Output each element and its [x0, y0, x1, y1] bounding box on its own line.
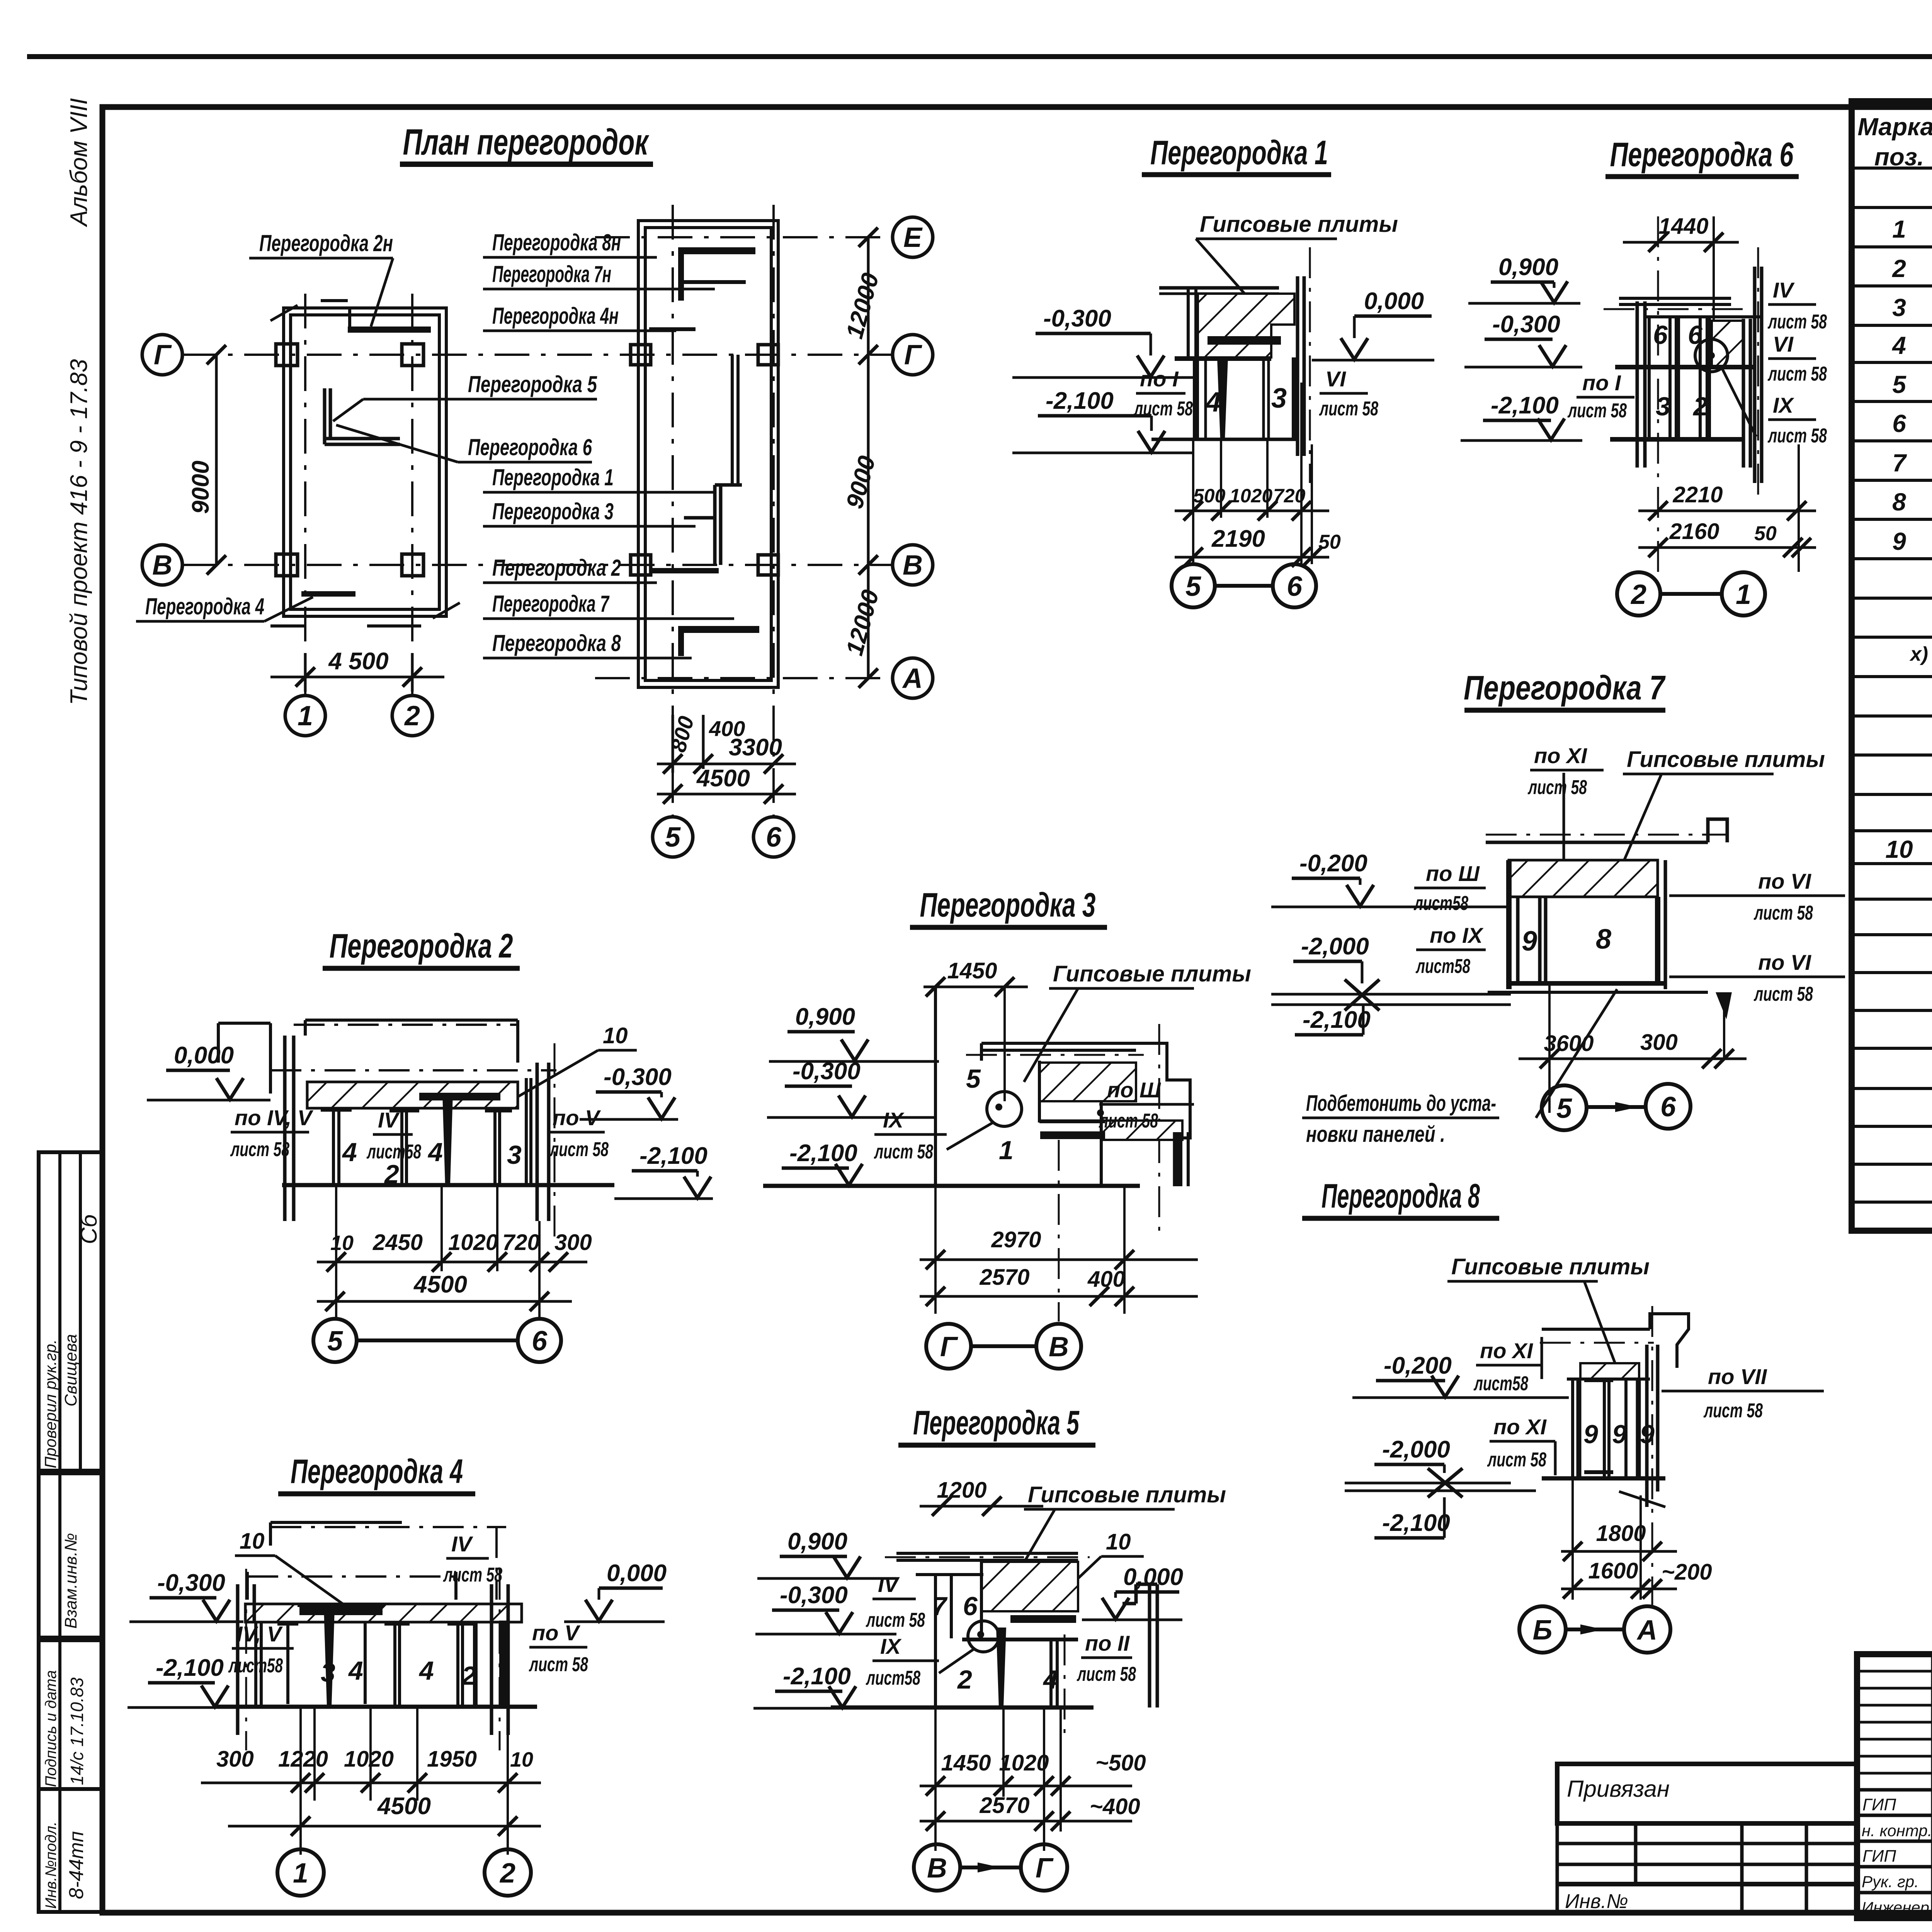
svg-text:1: 1	[293, 1858, 308, 1889]
svg-text:2570: 2570	[979, 1793, 1029, 1818]
left plan column 2-В	[402, 554, 423, 576]
axis line В	[182, 564, 893, 566]
svg-text:В: В	[927, 1853, 947, 1884]
axis line Е	[595, 236, 893, 238]
П2 extension lines	[336, 1186, 539, 1318]
svg-text:4: 4	[1205, 387, 1221, 418]
svg-text:1020: 1020	[1230, 485, 1272, 507]
svg-text:-2,100: -2,100	[1303, 1007, 1371, 1033]
svg-text:~200: ~200	[1662, 1560, 1712, 1585]
svg-text:лист 58: лист 58	[443, 1564, 502, 1586]
svg-text:4: 4	[418, 1656, 434, 1685]
svg-text:Перегородка 5: Перегородка 5	[468, 371, 597, 397]
svg-text:-0,300: -0,300	[793, 1058, 861, 1085]
svg-text:-2,100: -2,100	[156, 1655, 224, 1681]
П1 panels verticals	[1193, 357, 1199, 439]
П2 gypsum plate black bar	[419, 1093, 500, 1100]
svg-text:5: 5	[327, 1326, 343, 1357]
П2 right wall	[536, 1063, 539, 1221]
П6 right wall	[1742, 319, 1745, 468]
П4 axis circle 2	[485, 1849, 531, 1896]
svg-text:лист 58: лист 58	[866, 1609, 925, 1631]
П2 small plates	[321, 1110, 512, 1111]
svg-text:5: 5	[1185, 571, 1201, 602]
right plan partition 7н line	[684, 280, 746, 284]
svg-text:800: 800	[666, 714, 699, 755]
П6 detail circle	[1695, 339, 1728, 372]
svg-text:лист58: лист58	[1415, 955, 1470, 978]
svg-text:3: 3	[1271, 383, 1287, 414]
П5 top beam	[896, 1553, 1078, 1560]
svg-text:лист 58: лист 58	[1319, 398, 1378, 420]
svg-text:5: 5	[665, 822, 681, 853]
svg-text:Гипсовые плиты: Гипсовые плиты	[1200, 212, 1398, 237]
svg-text:по Ш: по Ш	[1107, 1078, 1161, 1102]
svg-text:9000: 9000	[841, 453, 881, 512]
svg-text:0,900: 0,900	[787, 1528, 847, 1555]
П3 axis circle В	[1036, 1324, 1081, 1369]
svg-text:5: 5	[1556, 1093, 1572, 1124]
svg-text:6: 6	[532, 1326, 548, 1357]
dim 800 400 3300 right plan	[657, 714, 796, 774]
П5 upper panels	[916, 1562, 983, 1638]
svg-text:2: 2	[384, 1160, 399, 1189]
svg-text:IV: IV	[878, 1572, 900, 1597]
П4 posts	[256, 1622, 508, 1707]
svg-text:Инв.№подл.: Инв.№подл.	[43, 1821, 60, 1909]
svg-text:А: А	[902, 663, 923, 694]
right plan partition 1 wall	[715, 485, 742, 565]
right plan partition 2 bar	[649, 568, 719, 573]
svg-text:1020: 1020	[448, 1230, 498, 1255]
П1 panel wedge	[1217, 357, 1228, 439]
svg-text:1950: 1950	[427, 1747, 477, 1772]
svg-text:по I: по I	[1140, 367, 1179, 391]
svg-text:4: 4	[348, 1656, 363, 1685]
svg-text:Гипсовые плиты: Гипсовые плиты	[1028, 1482, 1226, 1507]
svg-text:9: 9	[1612, 1420, 1627, 1449]
svg-text:Гипсовые плиты: Гипсовые плиты	[1053, 961, 1251, 986]
svg-text:2: 2	[404, 701, 420, 731]
svg-text:IV: IV	[451, 1532, 474, 1556]
left plan outer wall	[284, 308, 446, 616]
svg-text:1: 1	[1736, 579, 1751, 610]
svg-text:Подбетонить до уста-: Подбетонить до уста-	[1306, 1091, 1496, 1116]
П3 detail circle	[987, 1092, 1022, 1126]
svg-text:8: 8	[1596, 924, 1611, 955]
svg-text:2160: 2160	[1669, 519, 1719, 544]
svg-text:1600: 1600	[1588, 1558, 1638, 1583]
svg-text:50: 50	[1754, 522, 1777, 545]
П1 top beam	[1159, 286, 1279, 290]
svg-text:лист 58: лист 58	[1767, 363, 1827, 385]
svg-text:Типовой проект 416 - 9 - 17.83: Типовой проект 416 - 9 - 17.83	[66, 359, 92, 705]
svg-text:Марка,: Марка,	[1857, 113, 1932, 141]
grid circle 6	[753, 817, 794, 857]
left plan bottom stubs	[270, 624, 421, 628]
svg-text:0,000: 0,000	[607, 1560, 667, 1587]
dim 4500 left plan	[270, 648, 444, 692]
svg-text:по I: по I	[1582, 371, 1621, 395]
svg-text:по IX: по IX	[1430, 923, 1484, 947]
axis circle Е right	[893, 217, 933, 257]
П7 hatch band	[1509, 860, 1658, 897]
П7 top edge	[1486, 841, 1708, 844]
SPEC_TABLE	[1852, 101, 1932, 1231]
П5 axis circle Г	[1021, 1844, 1067, 1891]
П4 top dashdot beams	[247, 1527, 506, 1600]
П4 extension lines	[301, 1708, 508, 1855]
svg-text:ГИП: ГИП	[1862, 1847, 1896, 1866]
svg-text:Перегородка 2н: Перегородка 2н	[259, 230, 393, 256]
svg-text:~500: ~500	[1095, 1750, 1146, 1776]
svg-text:Г: Г	[154, 340, 172, 371]
П4 right column	[492, 1584, 508, 1735]
П2 circle link	[357, 1338, 518, 1342]
svg-text:2210: 2210	[1672, 482, 1723, 507]
left plan wall break ticks	[270, 305, 460, 618]
svg-text:В: В	[903, 550, 923, 581]
svg-text:2570: 2570	[979, 1265, 1029, 1290]
svg-text:-2,100: -2,100	[783, 1663, 851, 1690]
svg-text:по VII: по VII	[1708, 1364, 1767, 1389]
svg-text:лист 58: лист 58	[1077, 1663, 1136, 1685]
svg-text:10: 10	[330, 1231, 354, 1255]
svg-text:2: 2	[461, 1661, 476, 1690]
svg-text:3: 3	[507, 1140, 522, 1170]
svg-text:поз.: поз.	[1874, 143, 1924, 171]
svg-text:по XI: по XI	[1534, 743, 1587, 768]
svg-text:лист 58: лист 58	[230, 1138, 289, 1161]
П1 gypsum plate black bar	[1207, 336, 1281, 345]
svg-text:по VI: по VI	[1758, 950, 1811, 975]
svg-text:3: 3	[1656, 392, 1670, 421]
svg-text:Перегородка 4: Перегородка 4	[291, 1452, 463, 1490]
svg-text:Г: Г	[940, 1332, 958, 1362]
svg-text:по II: по II	[1085, 1631, 1130, 1655]
svg-text:Б: Б	[1533, 1615, 1553, 1646]
left plan partition 4 black bar bottom	[301, 591, 355, 597]
svg-text:лист 58: лист 58	[549, 1138, 609, 1161]
svg-text:0,900: 0,900	[795, 1003, 855, 1030]
svg-text:5: 5	[966, 1064, 981, 1094]
svg-text:х): х)	[1909, 643, 1928, 665]
right plan partition 3 stub	[684, 516, 715, 520]
svg-text:300: 300	[554, 1230, 592, 1255]
right plan partition 4н line	[649, 327, 696, 331]
svg-text:8: 8	[1892, 488, 1906, 516]
П6 axis circle 2	[1617, 572, 1660, 616]
svg-text:2: 2	[1892, 255, 1906, 282]
П3 right wall	[1173, 1132, 1177, 1186]
svg-text:Перегородка 4: Перегородка 4	[145, 594, 264, 619]
svg-text:Инженер: Инженер	[1862, 1899, 1929, 1916]
svg-text:Проверил рук.гр.: Проверил рук.гр.	[41, 1339, 60, 1468]
svg-text:0,000: 0,000	[174, 1042, 234, 1069]
svg-text:9: 9	[1892, 527, 1906, 555]
svg-text:новки панелей .: новки панелей .	[1306, 1122, 1445, 1147]
svg-text:0,000: 0,000	[1364, 288, 1424, 315]
П3 circle link	[971, 1344, 1036, 1348]
П1 extension lines	[1193, 383, 1312, 564]
П5 mid junction	[962, 1638, 1078, 1641]
П1 circle link	[1215, 584, 1273, 588]
svg-text:IX: IX	[880, 1634, 902, 1658]
П7 axis circle 6	[1646, 1084, 1690, 1129]
П7 right wall arrowhead	[1716, 992, 1732, 1019]
svg-text:9: 9	[1583, 1420, 1598, 1449]
svg-text:лист 58: лист 58	[1567, 400, 1627, 422]
svg-text:-2,100: -2,100	[1491, 392, 1559, 419]
axis circle Г right	[893, 335, 933, 375]
П3 panel body	[934, 987, 937, 1186]
svg-text:-0,300: -0,300	[157, 1570, 225, 1596]
svg-text:4500: 4500	[377, 1793, 431, 1820]
П1 junction line	[1175, 356, 1271, 361]
dim 9000 left	[187, 345, 226, 575]
svg-text:6: 6	[1660, 1092, 1676, 1122]
svg-text:Е: Е	[903, 222, 923, 253]
grid line 2	[411, 294, 413, 696]
axis line Г	[182, 205, 893, 817]
П3 right block	[1136, 1043, 1190, 1138]
П1 ceiling hatch	[1198, 294, 1294, 357]
svg-text:Г: Г	[904, 340, 922, 371]
svg-text:лист 58: лист 58	[1753, 902, 1813, 924]
svg-text:720: 720	[1273, 485, 1306, 507]
left plan top wall stubs	[321, 301, 350, 328]
svg-text:-2,100: -2,100	[1382, 1510, 1450, 1536]
П6 axis circle 1	[1722, 572, 1765, 616]
svg-text:2: 2	[499, 1858, 515, 1889]
svg-text:2: 2	[1630, 579, 1646, 610]
П5 axis circle В	[914, 1844, 960, 1891]
svg-text:4: 4	[427, 1138, 443, 1167]
П8 circle link	[1566, 1628, 1624, 1631]
svg-text:VI: VI	[1325, 367, 1346, 391]
right plan column В-6	[758, 555, 778, 575]
svg-text:4: 4	[1043, 1665, 1058, 1694]
svg-text:1220: 1220	[278, 1747, 328, 1772]
axis circle В right	[893, 545, 933, 585]
П3 top beam	[981, 1043, 1136, 1061]
svg-text:10: 10	[510, 1748, 533, 1771]
label Перегородка 2н	[136, 230, 734, 658]
П2 axis circle 6	[518, 1319, 561, 1362]
П8 axis circle А	[1624, 1606, 1670, 1653]
svg-text:Г: Г	[1036, 1853, 1054, 1884]
svg-text:План перегородок: План перегородок	[403, 122, 650, 163]
svg-text:7: 7	[1892, 449, 1907, 477]
svg-text:2190: 2190	[1211, 526, 1265, 552]
svg-text:3300: 3300	[729, 734, 782, 761]
П4 gypsum plate black bar	[299, 1607, 383, 1615]
grid circle 2	[392, 696, 432, 736]
svg-text:1450: 1450	[947, 958, 997, 983]
svg-text:по XI: по XI	[1493, 1415, 1547, 1439]
svg-text:-0,300: -0,300	[604, 1064, 672, 1090]
svg-text:~400: ~400	[1090, 1794, 1140, 1819]
svg-text:В: В	[152, 550, 172, 581]
П5 extension lines	[935, 1708, 1061, 1851]
svg-text:1: 1	[1892, 215, 1906, 243]
svg-text:лист58: лист58	[1473, 1372, 1528, 1395]
П2 top beams dashdot	[270, 1025, 556, 1070]
П6 bottom line	[1610, 437, 1743, 442]
П8 right wall	[1647, 1345, 1658, 1507]
svg-text:5: 5	[1892, 371, 1906, 398]
П4 axis circle 1	[277, 1849, 324, 1896]
left stamp box 1	[39, 1152, 102, 1471]
П5 right wall	[1122, 1584, 1157, 1708]
svg-text:Перегородка 2: Перегородка 2	[330, 927, 513, 965]
svg-text:лист58: лист58	[228, 1655, 283, 1677]
П6 mid line VI level	[1615, 365, 1756, 369]
right plan column В	[631, 555, 651, 575]
TITLE_BLOCK	[1557, 1654, 1932, 1932]
signature rows	[1857, 1790, 1932, 1893]
left plan column 2-Г	[402, 344, 423, 366]
svg-text:9: 9	[1522, 926, 1537, 957]
svg-text:по VI: по VI	[1758, 869, 1811, 893]
svg-text:Перегородка 5: Перегородка 5	[913, 1403, 1080, 1442]
П8 top-right block	[1650, 1314, 1689, 1368]
П5 lower posts	[935, 1638, 1057, 1708]
left plan column at Г	[276, 344, 298, 366]
svg-text:300: 300	[1640, 1030, 1678, 1055]
П6 hatch corner	[1712, 321, 1743, 366]
svg-text:по Ш: по Ш	[1426, 861, 1480, 886]
svg-text:50: 50	[1318, 531, 1341, 553]
svg-text:7: 7	[932, 1592, 948, 1621]
svg-text:лист 58: лист 58	[1767, 425, 1827, 447]
svg-text:А: А	[1636, 1615, 1657, 1646]
svg-text:IV: IV	[378, 1108, 400, 1132]
svg-text:1: 1	[298, 701, 313, 731]
svg-text:В: В	[1049, 1332, 1069, 1362]
right plan outer wall	[638, 221, 778, 687]
svg-text:500: 500	[1193, 485, 1226, 507]
svg-text:лист 58: лист 58	[1487, 1449, 1546, 1471]
svg-text:4500: 4500	[413, 1271, 467, 1298]
П8 hatch band	[1580, 1363, 1639, 1379]
left extension: Привязан box	[1557, 1764, 1857, 1823]
П2 floor line	[282, 1183, 614, 1187]
table outer border	[1852, 101, 1932, 1231]
svg-text:14/с 17.10.83: 14/с 17.10.83	[67, 1677, 87, 1785]
svg-text:лист 58: лист 58	[1133, 398, 1193, 420]
svg-text:Перегородка 4н: Перегородка 4н	[492, 303, 619, 329]
axis circle Г left	[142, 335, 182, 375]
svg-text:лист 58: лист 58	[1767, 311, 1827, 333]
П8 floor line	[1542, 1476, 1665, 1481]
svg-text:1020: 1020	[999, 1750, 1049, 1776]
П2 left column	[283, 1036, 287, 1221]
left stamp box 3	[39, 1640, 102, 1789]
right plan inner wall axis 6	[732, 355, 738, 485]
П8 axis circle Б	[1519, 1606, 1566, 1653]
svg-text:Перегородка 8: Перегородка 8	[1321, 1177, 1480, 1215]
П2 axis circle 5	[313, 1319, 357, 1362]
svg-text:-2,100: -2,100	[789, 1140, 857, 1167]
svg-text:4 500: 4 500	[328, 648, 388, 675]
svg-text:2970: 2970	[991, 1227, 1041, 1252]
svg-text:-2,000: -2,000	[1382, 1436, 1450, 1463]
svg-text:1020: 1020	[344, 1747, 394, 1772]
П5 hatch band	[981, 1562, 1078, 1611]
grid line 6	[772, 205, 775, 817]
svg-text:8-44тп: 8-44тп	[65, 1831, 88, 1899]
П8 extension lines	[1573, 1480, 1641, 1600]
П3 extension lines	[934, 1186, 937, 1314]
svg-text:Гипсовые плиты: Гипсовые плиты	[1627, 747, 1825, 772]
svg-text:-0,300: -0,300	[1043, 305, 1111, 332]
svg-text:10: 10	[1106, 1529, 1131, 1554]
svg-text:н. контр.: н. контр.	[1862, 1821, 1932, 1840]
П6 panel row verticals	[1649, 317, 1708, 439]
svg-text:3600: 3600	[1544, 1031, 1594, 1056]
П2 panel wedge	[442, 1094, 453, 1184]
svg-text:6: 6	[1287, 571, 1303, 602]
П6 left wall	[1636, 301, 1639, 468]
svg-text:3: 3	[1892, 294, 1906, 321]
svg-text:6: 6	[963, 1592, 978, 1621]
svg-text:1800: 1800	[1596, 1521, 1646, 1546]
left plan partition 5 wall	[325, 388, 400, 444]
svg-text:ГИП: ГИП	[1862, 1795, 1896, 1814]
grid line 5	[672, 205, 674, 817]
П4 panel wedge	[324, 1608, 335, 1707]
svg-text:лист 58: лист 58	[1099, 1110, 1158, 1132]
svg-text:Перегородка 7н: Перегородка 7н	[492, 261, 611, 287]
svg-text:3: 3	[321, 1658, 335, 1687]
svg-text:Перегородка 8: Перегородка 8	[492, 630, 621, 656]
svg-text:-0,300: -0,300	[1492, 311, 1560, 338]
svg-text:Перегородка 3: Перегородка 3	[920, 886, 1096, 924]
svg-text:Привязан: Привязан	[1567, 1776, 1670, 1802]
svg-text:лист 58: лист 58	[529, 1653, 588, 1676]
svg-text:Перегородка 2: Перегородка 2	[492, 555, 621, 581]
П6 top beam	[1619, 298, 1731, 304]
svg-text:10: 10	[603, 1023, 628, 1048]
svg-text:6: 6	[766, 822, 782, 853]
svg-text:6: 6	[1688, 320, 1703, 350]
left stamp box 4	[39, 1789, 102, 1912]
П5 floor line	[831, 1706, 1094, 1710]
svg-text:Перегородка 1: Перегородка 1	[492, 464, 614, 490]
svg-text:0,900: 0,900	[1498, 254, 1558, 281]
svg-text:720: 720	[502, 1230, 540, 1255]
П8 top dashdot	[1540, 1342, 1654, 1344]
svg-text:0,000: 0,000	[1123, 1564, 1183, 1590]
change-table small rows	[1857, 1671, 1932, 1773]
scan top edge	[27, 54, 1932, 59]
right plan partition 8 black hook bottom	[678, 626, 759, 656]
title block outer border	[1857, 1654, 1932, 1918]
svg-text:Сб: Сб	[76, 1214, 102, 1244]
svg-text:1450: 1450	[941, 1750, 991, 1776]
left stamp box 2	[39, 1473, 102, 1638]
svg-text:300: 300	[216, 1747, 254, 1772]
svg-text:по IV, V: по IV, V	[235, 1105, 314, 1130]
svg-text:9000: 9000	[187, 461, 214, 514]
svg-text:Перегородка 1: Перегородка 1	[1150, 133, 1328, 172]
svg-text:4: 4	[1891, 332, 1906, 359]
axis circle А right	[893, 658, 933, 698]
svg-text:12000: 12000	[841, 587, 884, 658]
svg-text:10: 10	[240, 1529, 265, 1554]
П3 black bar	[1040, 1131, 1105, 1139]
